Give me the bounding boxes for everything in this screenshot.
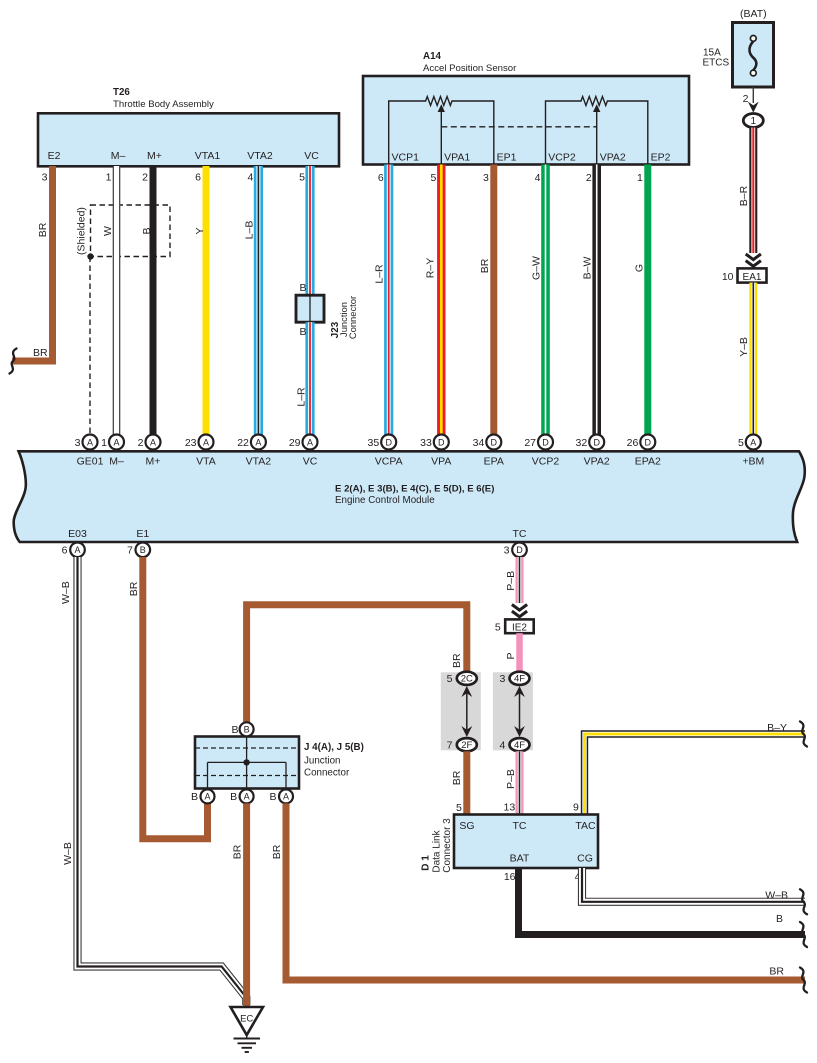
svg-text:D: D	[385, 437, 392, 447]
svg-text:B: B	[140, 545, 146, 555]
ECM pin GE01 3(A)	[75, 435, 104, 468]
ECM pin +BM 5(A)	[738, 435, 764, 468]
svg-text:6: 6	[378, 172, 384, 184]
svg-text:VPA2: VPA2	[600, 152, 626, 164]
svg-text:P–B: P–B	[505, 769, 517, 789]
svg-text:1: 1	[751, 116, 757, 127]
D1 Data Link Connector 3 box	[421, 815, 598, 873]
wire BR from 2F to DLC3 SG	[451, 751, 470, 814]
dashed link between wipers VPA1-VPA2	[441, 126, 596, 128]
continuation squiggle left BR	[10, 349, 17, 374]
svg-text:Data Link: Data Link	[431, 829, 442, 872]
svg-text:BAT: BAT	[510, 853, 530, 865]
svg-text:D: D	[438, 437, 445, 447]
svg-text:W–B: W–B	[60, 581, 72, 604]
svg-text:2: 2	[142, 172, 148, 184]
svg-text:EP2: EP2	[651, 152, 671, 164]
svg-text:BR: BR	[479, 258, 491, 273]
svg-text:Y: Y	[194, 227, 206, 234]
ECM pin M+ 2(A)	[138, 435, 161, 468]
continuation squiggle right B-Y	[800, 722, 807, 747]
svg-text:VCP2: VCP2	[548, 152, 576, 164]
svg-text:VCP1: VCP1	[392, 152, 420, 164]
svg-text:Connector 3: Connector 3	[442, 818, 453, 873]
continuation squiggle right BR	[800, 968, 807, 993]
svg-text:2: 2	[743, 93, 749, 105]
svg-text:6: 6	[195, 172, 201, 184]
svg-text:VCP2: VCP2	[532, 456, 560, 468]
svg-text:34: 34	[473, 437, 485, 449]
svg-text:B: B	[299, 282, 306, 294]
wire B from DLC3 BAT to right edge	[519, 868, 806, 935]
junction pin A at x=207.5	[191, 789, 215, 803]
ECM band (Engine Control Module)	[14, 451, 805, 542]
svg-text:BR: BR	[769, 966, 784, 978]
svg-text:9: 9	[573, 802, 579, 814]
svg-text:L–B: L–B	[244, 221, 256, 240]
wire BR from ECM E1 to junction J4/J5 pin A	[128, 557, 208, 839]
svg-text:13: 13	[504, 802, 516, 814]
svg-text:EP1: EP1	[497, 152, 517, 164]
ECM top pin labels	[75, 435, 765, 468]
svg-text:L–R: L–R	[374, 264, 386, 284]
svg-text:E1: E1	[136, 528, 149, 540]
connector IE2 pin 5	[495, 619, 534, 633]
ECM pin VC 29(A)	[289, 435, 318, 468]
ECM pin VCPA 35(D)	[368, 435, 403, 468]
potentiometer 2 (VCP2-VPA2-EP2)	[546, 97, 648, 165]
svg-text:L–R: L–R	[296, 387, 308, 407]
svg-text:R–Y: R–Y	[424, 258, 436, 278]
wire Y-B from EA1 to ECM +BM	[738, 283, 757, 435]
svg-text:B: B	[191, 791, 198, 803]
svg-text:W–B: W–B	[62, 842, 74, 865]
ECM pin VTA2 22(A)	[237, 435, 271, 468]
svg-text:1: 1	[106, 172, 112, 184]
svg-text:VC: VC	[303, 456, 318, 468]
svg-text:SG: SG	[459, 820, 474, 832]
svg-text:VTA: VTA	[196, 456, 216, 468]
wire B-W from A14 VPA2 to ECM VPA2	[582, 165, 601, 435]
wire W from T26 M- to ECM	[102, 166, 120, 435]
svg-text:A: A	[244, 792, 250, 802]
svg-text:A: A	[204, 792, 210, 802]
svg-text:M–: M–	[111, 150, 126, 162]
A14 Accel Position Sensor box	[363, 51, 689, 165]
ECM pin VCP2 27(D)	[524, 435, 559, 468]
svg-text:3: 3	[499, 673, 505, 685]
svg-text:D: D	[516, 545, 523, 555]
svg-text:29: 29	[289, 437, 301, 449]
wire L-R from A14 VCP1 to ECM VCPA	[374, 165, 394, 435]
svg-text:A: A	[74, 545, 80, 555]
svg-text:2: 2	[586, 172, 592, 184]
svg-text:BR: BR	[232, 844, 244, 859]
svg-text:EC: EC	[240, 1014, 253, 1025]
svg-text:P–B: P–B	[505, 571, 517, 591]
svg-text:EA1: EA1	[743, 272, 762, 283]
svg-text:B–W: B–W	[582, 257, 594, 280]
svg-text:5: 5	[495, 622, 501, 634]
junction connector J4(A) J5(B)	[195, 737, 364, 789]
svg-text:VTA2: VTA2	[247, 150, 273, 162]
ECM pin EPA 34(D)	[473, 435, 504, 468]
A14 pin numbers	[378, 172, 643, 184]
connector EA1 pin 10	[722, 268, 767, 283]
svg-text:EPA2: EPA2	[635, 456, 661, 468]
svg-text:BR: BR	[128, 581, 140, 596]
svg-text:2: 2	[138, 437, 144, 449]
svg-text:A: A	[750, 437, 756, 447]
svg-text:22: 22	[237, 437, 249, 449]
svg-text:J 4(A), J 5(B): J 4(A), J 5(B)	[304, 742, 364, 753]
junction J4/J5 pin B (top)	[231, 722, 253, 736]
wire Y from T26 VTA1 to ECM	[194, 166, 209, 435]
svg-text:B: B	[231, 724, 238, 736]
connector 4F pass-through	[493, 672, 533, 752]
svg-text:ETCS: ETCS	[703, 58, 730, 69]
DLC3 pin numbers	[456, 802, 581, 884]
svg-text:27: 27	[524, 437, 536, 449]
svg-text:35: 35	[368, 437, 380, 449]
svg-text:M+: M+	[147, 150, 162, 162]
svg-text:BR: BR	[37, 222, 49, 237]
svg-text:Throttle Body Assembly: Throttle Body Assembly	[113, 99, 214, 110]
ECM pin E03 6(A)	[62, 528, 87, 557]
wire L-R from T26 VC to J23	[299, 166, 314, 295]
svg-text:A: A	[307, 437, 313, 447]
svg-text:BR: BR	[451, 653, 463, 668]
svg-text:4: 4	[248, 172, 254, 184]
shield drain wire (dashed) to ECM GE01	[89, 257, 91, 435]
svg-text:+BM: +BM	[742, 456, 764, 468]
svg-text:16: 16	[504, 871, 516, 883]
svg-text:2C: 2C	[461, 674, 473, 685]
ECM pin E1 7(B)	[127, 528, 150, 557]
T26 Throttle Body Assembly box	[38, 87, 339, 166]
svg-text:G–W: G–W	[531, 256, 543, 280]
svg-text:(BAT): (BAT)	[740, 8, 767, 20]
svg-text:VTA2: VTA2	[246, 456, 272, 468]
wire L-B from T26 VTA2 to ECM	[244, 166, 264, 435]
connector 2C/2F pass-through	[441, 672, 481, 752]
svg-text:4F: 4F	[514, 740, 525, 751]
svg-text:B–R: B–R	[738, 185, 750, 206]
T26 pin numbers	[42, 172, 306, 184]
svg-text:3: 3	[75, 437, 81, 449]
svg-text:5: 5	[299, 172, 305, 184]
svg-text:EPA: EPA	[484, 456, 504, 468]
svg-text:TC: TC	[513, 820, 527, 832]
svg-text:2F: 2F	[461, 740, 472, 751]
svg-text:CG: CG	[577, 853, 593, 865]
svg-text:4F: 4F	[514, 674, 525, 685]
svg-text:E 2(A), E 3(B), E 4(C), E 5(D): E 2(A), E 3(B), E 4(C), E 5(D), E 6(E)	[335, 484, 494, 495]
svg-text:32: 32	[576, 437, 588, 449]
wire R-Y from A14 VPA1 to ECM VPA	[424, 165, 445, 435]
wire BR from junction J4/J5 pin B up to connector 2C	[247, 605, 467, 723]
ECM pin VTA 23(A)	[185, 435, 216, 468]
svg-text:M+: M+	[146, 456, 161, 468]
svg-text:E03: E03	[68, 528, 87, 540]
svg-text:T26: T26	[113, 87, 130, 98]
wire P-B from ECM TC to IE2	[505, 557, 527, 617]
wire BR from junction pin A (center) to EC ground	[232, 803, 250, 1006]
svg-text:VPA: VPA	[431, 456, 451, 468]
svg-text:Junction: Junction	[304, 756, 341, 767]
svg-text:W: W	[102, 226, 114, 236]
wire B from T26 M+ to ECM	[141, 166, 156, 435]
wire BR from junction pin A (right) to right edge	[271, 803, 805, 980]
svg-text:P: P	[505, 652, 517, 659]
svg-text:D: D	[645, 437, 652, 447]
svg-text:Connector: Connector	[304, 768, 350, 779]
svg-text:TC: TC	[513, 528, 527, 540]
svg-text:26: 26	[627, 437, 639, 449]
wire B-Y from right edge to DLC3 TAC	[585, 722, 806, 815]
svg-text:B: B	[269, 791, 276, 803]
svg-text:A: A	[113, 437, 119, 447]
svg-text:7: 7	[127, 545, 133, 557]
svg-text:A: A	[255, 437, 261, 447]
wire W-B from ECM E03 to EC ground	[60, 557, 246, 1005]
svg-text:3: 3	[504, 545, 510, 557]
svg-text:5: 5	[738, 437, 744, 449]
ground EC	[231, 1007, 264, 1052]
svg-text:D: D	[491, 437, 498, 447]
ECM pin TC 3(D)	[504, 528, 527, 557]
continuation squiggle right W-B	[800, 889, 807, 914]
wire L-R from J23 to ECM VC	[296, 322, 315, 434]
svg-text:Engine Control Module: Engine Control Module	[335, 495, 435, 506]
svg-text:A: A	[87, 437, 93, 447]
svg-text:W–B: W–B	[765, 890, 788, 902]
svg-text:B: B	[776, 913, 783, 925]
svg-text:33: 33	[420, 437, 432, 449]
wire fuse pin 2 to connector 1	[743, 87, 759, 113]
svg-text:3: 3	[483, 172, 489, 184]
continuation squiggle right B	[800, 922, 807, 947]
svg-text:B–Y: B–Y	[767, 722, 787, 734]
wire W-B from DLC3 CG to right edge	[582, 868, 805, 902]
svg-text:D: D	[542, 437, 549, 447]
svg-text:1: 1	[101, 437, 107, 449]
svg-text:BR: BR	[271, 844, 283, 859]
svg-text:4: 4	[535, 172, 541, 184]
svg-text:5: 5	[447, 673, 453, 685]
svg-text:7: 7	[447, 740, 453, 752]
svg-text:M–: M–	[109, 456, 124, 468]
svg-text:(Shielded): (Shielded)	[75, 207, 87, 255]
svg-text:3: 3	[42, 172, 48, 184]
svg-text:6: 6	[62, 545, 68, 557]
svg-text:A: A	[150, 437, 156, 447]
wire BR from A14 EP1 to ECM EPA	[479, 165, 497, 435]
junction connector J23	[296, 295, 358, 339]
potentiometer 1 (VCP1-VPA1-EP1)	[389, 97, 494, 165]
shielded cable dashed box	[75, 205, 170, 260]
svg-text:VPA2: VPA2	[584, 456, 610, 468]
ECM pin EPA2 26(D)	[627, 435, 661, 468]
wire P-B from 4F to DLC3 TC	[505, 751, 524, 814]
wire G from A14 EP2 to ECM EPA2	[634, 165, 652, 435]
svg-text:TAC: TAC	[575, 820, 596, 832]
ECM pin VPA2 32(D)	[576, 435, 610, 468]
svg-text:D 1: D 1	[421, 855, 432, 871]
junction pin A at x=246.6	[230, 789, 254, 803]
wire BR from T26 E2 to left edge	[12, 166, 53, 361]
svg-text:Accel Position Sensor: Accel Position Sensor	[423, 63, 517, 74]
svg-text:5: 5	[456, 802, 462, 814]
wire G-W from A14 VCP2 to ECM VCP2	[531, 165, 550, 435]
svg-text:VTA1: VTA1	[195, 150, 221, 162]
svg-text:BR: BR	[451, 770, 463, 785]
svg-text:B: B	[244, 725, 250, 735]
fuse 15A ETCS (BAT)	[703, 8, 774, 87]
svg-text:10: 10	[722, 271, 734, 283]
svg-text:B: B	[230, 791, 237, 803]
svg-text:D: D	[593, 437, 600, 447]
svg-text:Y–B: Y–B	[738, 337, 750, 357]
svg-text:GE01: GE01	[77, 456, 104, 468]
svg-text:VPA1: VPA1	[444, 152, 470, 164]
ECM pin VPA 33(D)	[420, 435, 451, 468]
svg-text:A14: A14	[423, 51, 442, 62]
svg-text:VC: VC	[304, 150, 319, 162]
svg-text:B: B	[299, 326, 306, 338]
svg-text:Connector: Connector	[347, 296, 358, 339]
junction pin A at x=286	[269, 789, 293, 803]
svg-text:BR: BR	[33, 347, 48, 359]
svg-text:G: G	[634, 264, 646, 272]
svg-text:5: 5	[430, 172, 436, 184]
svg-text:IE2: IE2	[512, 623, 527, 634]
svg-text:1: 1	[637, 172, 643, 184]
wire P from IE2 to connector 4F	[505, 633, 523, 672]
connector 1 (oval)	[743, 114, 763, 128]
svg-text:A: A	[203, 437, 209, 447]
wire B-R from connector 1 to EA1	[738, 128, 761, 267]
svg-text:B: B	[141, 227, 153, 234]
svg-text:E2: E2	[48, 150, 61, 162]
svg-text:VCPA: VCPA	[375, 456, 403, 468]
svg-text:A: A	[283, 792, 289, 802]
svg-text:23: 23	[185, 437, 197, 449]
svg-text:4: 4	[499, 740, 505, 752]
ECM pin M– 1(A)	[101, 435, 124, 468]
